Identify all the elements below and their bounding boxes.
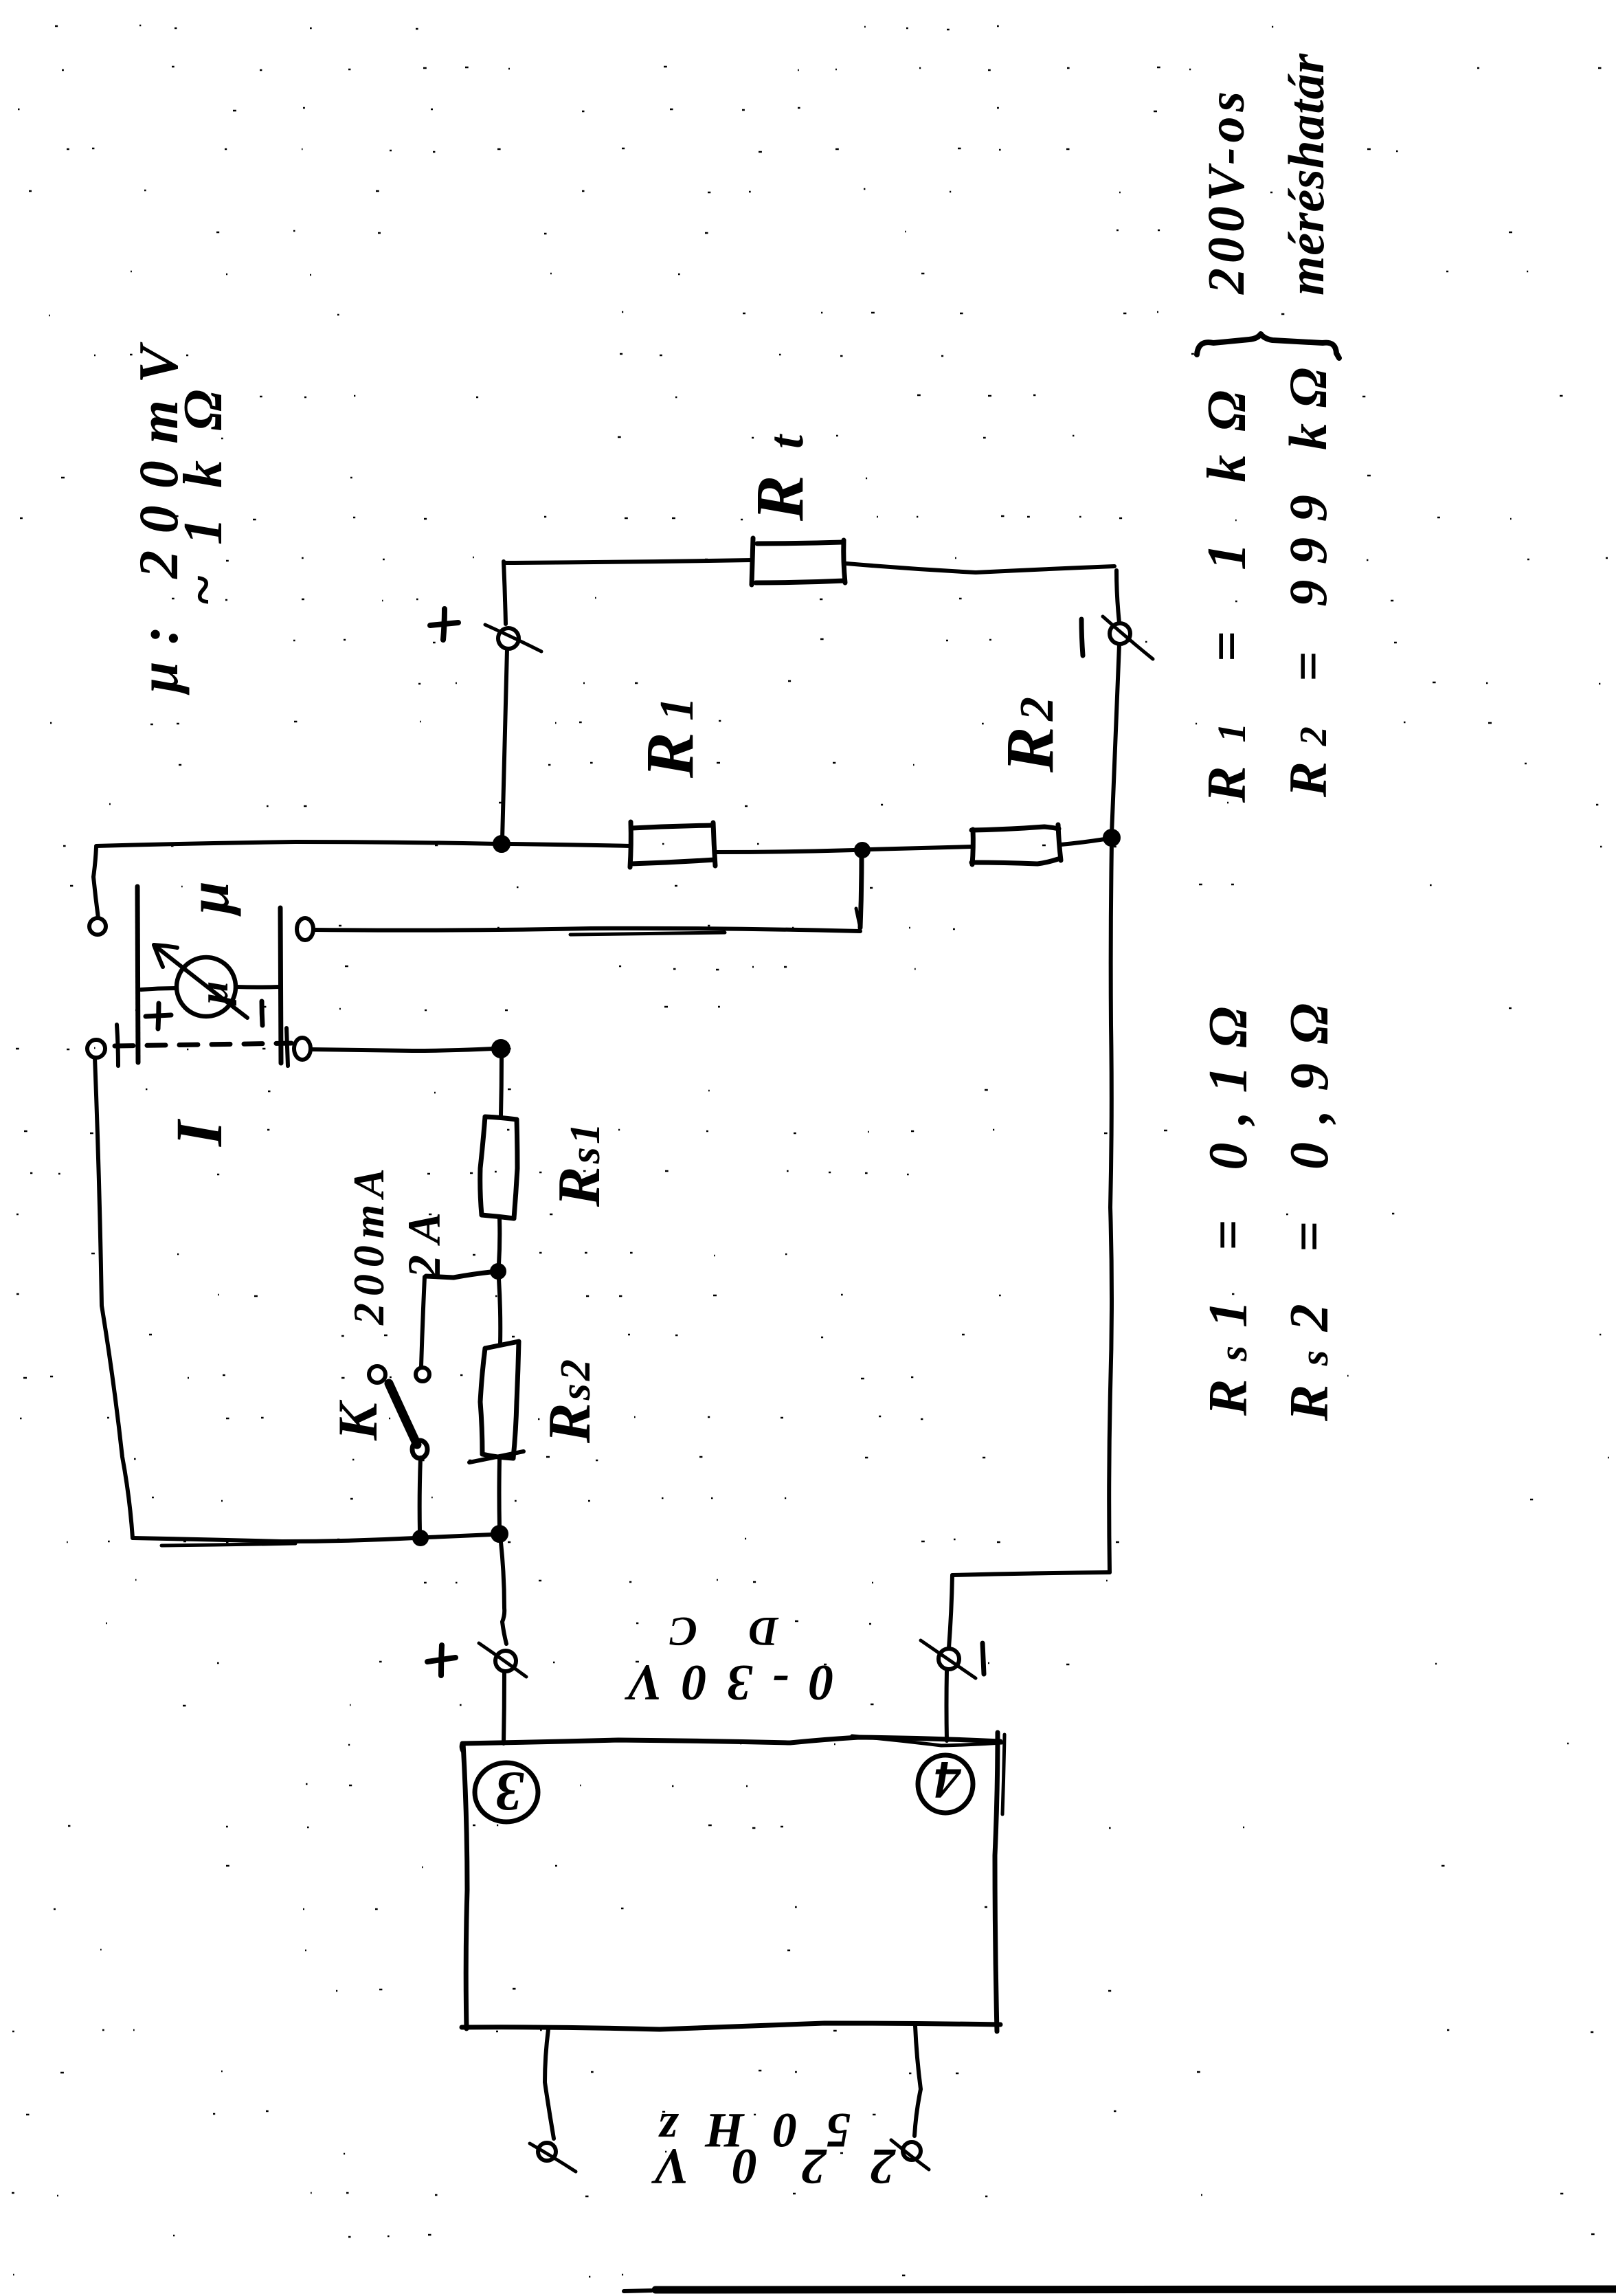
wire stub down from mid junction to meter tap wire xyxy=(860,858,862,928)
meter right jack terminal upper xyxy=(297,918,313,940)
wire switch node to bus node xyxy=(428,1535,492,1537)
resistor Rs2 body (vertical) xyxy=(485,1341,519,1348)
switch lever blade xyxy=(389,1383,417,1445)
terminal T- top (circle with slash) xyxy=(1116,570,1119,623)
meter lead left xyxy=(141,988,177,990)
meter right jack terminal lower xyxy=(294,1038,311,1060)
terminal supply + (circle with slash) xyxy=(495,1651,516,1671)
wire top rail to R4 xyxy=(504,560,752,563)
wire left rail y1228 from meter-left terminal hook to bus junction xyxy=(96,842,500,846)
svg-text:méréshatár: méréshatár xyxy=(1279,53,1335,296)
plus sign (top left supply polarity) xyxy=(430,623,458,625)
resistor Rs1 body (vertical) xyxy=(485,1117,517,1119)
box mains lead left xyxy=(545,2029,554,2139)
minus sign (top right supply polarity) xyxy=(1081,619,1083,656)
meter lead right xyxy=(236,985,280,990)
wire R2 to right bus junction xyxy=(1061,839,1105,845)
scanner edge artifact bar xyxy=(655,2289,1616,2290)
svg-text:3: 3 xyxy=(495,1761,524,1823)
meter movement circle M xyxy=(177,957,236,1016)
node switch rail xyxy=(413,1530,428,1546)
minus sign (supply -) xyxy=(983,1643,984,1674)
power supply box outline xyxy=(462,1737,1000,1751)
resistor R4 (top) body xyxy=(752,538,753,585)
resistor R2 body xyxy=(972,829,973,865)
meter bar electrode right xyxy=(280,908,281,1063)
svg-text:K: K xyxy=(326,1399,389,1441)
meter left jack terminal (upper) xyxy=(89,918,106,935)
bus Rs2 to lower node xyxy=(497,1460,502,1527)
circled 3 terminal id xyxy=(475,1763,538,1822)
wire below T+ joining main left bus xyxy=(502,649,507,840)
wire + rail top-left vertical xyxy=(504,561,506,624)
meter minus mark xyxy=(262,1001,262,1025)
wire junction to R1 xyxy=(510,844,630,846)
meter small bar lower-left xyxy=(117,1025,118,1066)
pen restroke on lower rail xyxy=(161,1543,295,1546)
right bus jog to lower - terminal xyxy=(952,1572,1110,1575)
terminal supply - (circle with slash) xyxy=(939,1649,959,1669)
wire from lower-left jack down and right to switch rail xyxy=(95,1058,133,1538)
grouping brace over R1 R2 values xyxy=(1197,334,1339,358)
meter needle with arrowhead xyxy=(154,945,247,1018)
box mains lead right xyxy=(914,2026,921,2136)
wire R4 to right corner xyxy=(846,564,1114,572)
wire pivot down to lower rail node xyxy=(420,1458,420,1531)
node branch to switch xyxy=(491,1264,506,1279)
wire mid junction to R2 xyxy=(870,847,972,849)
right bus vertical xyxy=(1112,645,1119,834)
meter plus mark xyxy=(146,1015,171,1016)
switch contact 200mA (small circle) xyxy=(369,1366,385,1383)
wire branch left then down to 2A contact xyxy=(426,1272,491,1278)
dashed case line of meter xyxy=(115,1043,291,1046)
switch pivot xyxy=(412,1440,427,1458)
svg-text:μ: μ xyxy=(175,881,241,917)
mains terminal left (circle with slash) xyxy=(538,2143,556,2161)
wire supply - into box xyxy=(945,1670,950,1741)
meter left jack terminal (lower) xyxy=(87,1040,105,1058)
left bus segment above Rs1 xyxy=(501,1058,502,1115)
wire meter upper jack to R1R2 mid tap xyxy=(314,928,860,931)
circled 4 terminal id xyxy=(918,1755,973,1813)
wire R1 to mid junction xyxy=(715,850,854,852)
wire supply + into box xyxy=(504,1672,504,1743)
resistor R1 body xyxy=(630,822,631,867)
mains terminal right (circle with slash) xyxy=(903,2142,921,2160)
node junction meter/bus xyxy=(492,1040,510,1058)
wire meter lower jack to left bus junction xyxy=(311,1049,493,1051)
bus Rs1 to branch node xyxy=(499,1218,500,1264)
bus Rs1 node to Rs2 xyxy=(499,1279,500,1344)
node mid junction R1-R2 xyxy=(855,843,870,858)
meter small bar lower-right xyxy=(287,1028,288,1066)
svg-text:I: I xyxy=(162,1118,236,1147)
terminal T+ top (circle with slash) xyxy=(498,628,519,649)
svg-text:μ: μ xyxy=(191,981,236,1006)
tick at Rs2 bottom xyxy=(469,1451,524,1462)
svg-text:4: 4 xyxy=(934,1750,962,1810)
switch contact 2A (small circle) xyxy=(416,1368,429,1381)
node bus / switch rail xyxy=(491,1526,508,1542)
bus node down to + supply terminal xyxy=(501,1542,506,1644)
meter bar electrode left xyxy=(137,887,138,1062)
node junction R2/right bus xyxy=(1103,829,1120,846)
plus sign (supply + ) xyxy=(427,1658,456,1662)
pen restroke on tap wire xyxy=(570,933,725,935)
node junction bus/top-rail xyxy=(493,836,510,852)
